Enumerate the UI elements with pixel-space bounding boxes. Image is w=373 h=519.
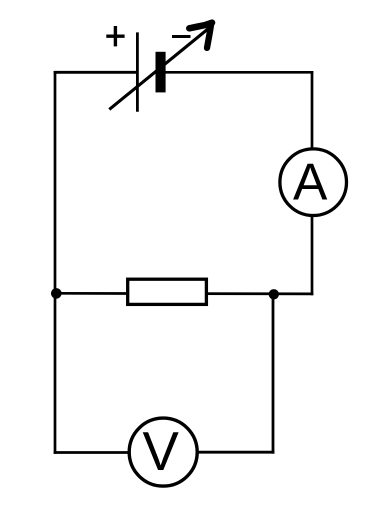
variability arrow shaft [109, 29, 208, 110]
wire right drop (node to voltmeter row) [272, 294, 275, 454]
resistor R1 [128, 279, 207, 304]
variability arrowhead [189, 23, 212, 48]
wire right vertical lower (ammeter to middle row) [311, 216, 314, 295]
wire top-right (battery negative lead) [165, 71, 313, 74]
wire bottom-right (voltmeter to right drop) [198, 451, 274, 454]
wire left vertical [54, 71, 57, 454]
voltmeter V1 [129, 418, 197, 486]
minus label [172, 35, 191, 38]
wire top-left (battery positive lead) [54, 71, 138, 74]
ammeter A1 [280, 149, 347, 216]
svg-text:A: A [293, 153, 328, 211]
svg-text:V: V [143, 421, 180, 482]
variable battery B1 positive plate [136, 32, 139, 111]
wire bottom-left (to voltmeter) [54, 451, 129, 454]
plus label [106, 26, 124, 46]
wire right vertical upper (to ammeter) [311, 71, 314, 149]
variable battery B1 negative plate [156, 52, 166, 93]
node right junction [269, 289, 279, 299]
wire middle horizontal [54, 292, 313, 295]
node left junction [51, 288, 62, 299]
